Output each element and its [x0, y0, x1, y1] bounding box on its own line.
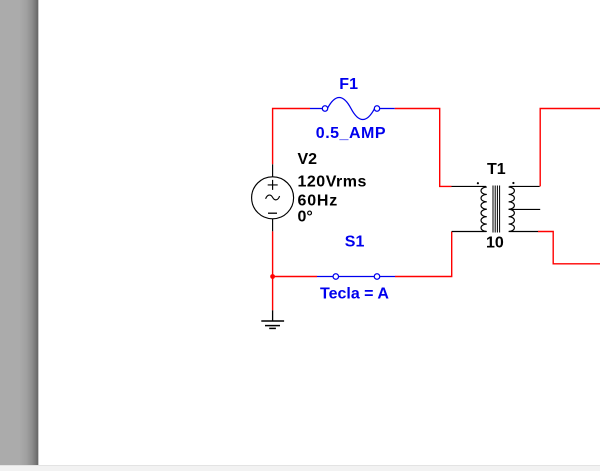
- primary phase dot: [477, 182, 479, 184]
- svg-text:120Vrms: 120Vrms: [298, 173, 367, 190]
- status bar separator: [0, 465, 600, 466]
- svg-text:0.5_AMP: 0.5_AMP: [316, 125, 386, 142]
- svg-text:0°: 0°: [298, 208, 313, 225]
- status bar strip: [0, 466, 600, 471]
- secondary winding: [509, 187, 515, 232]
- secondary top lead: [509, 185, 539, 187]
- junction dot: [270, 274, 275, 279]
- fuse F1: [310, 97, 395, 119]
- core lines: [493, 186, 500, 233]
- primary winding: [481, 187, 487, 232]
- svg-text:V2: V2: [298, 151, 318, 168]
- svg-text:F1: F1: [339, 76, 358, 93]
- switch S1: [317, 274, 395, 280]
- wire: V2 top to fuse (red): [273, 109, 310, 165]
- wire: transformer secondary bottom to bottom-right edge (red): [538, 232, 600, 264]
- ground: [261, 310, 284, 328]
- wire: fuse to transformer primary top (red): [395, 109, 452, 187]
- secondary bottom lead: [509, 231, 538, 233]
- wire: switch to junction (red): [273, 276, 317, 278]
- wire: transformer secondary top to top-right edge (red): [540, 109, 600, 187]
- primary bottom lead: [452, 231, 486, 233]
- primary top lead: [452, 185, 487, 187]
- svg-text:10: 10: [486, 235, 504, 252]
- secondary phase dot: [512, 182, 514, 184]
- wire: transformer primary bottom down to switch (red): [395, 232, 452, 277]
- secondary center tap: [509, 208, 541, 210]
- ac source V2: [252, 164, 294, 231]
- wire: V2 bottom to junction and ground (red): [272, 231, 274, 310]
- svg-text:S1: S1: [345, 234, 365, 251]
- svg-text:60Hz: 60Hz: [298, 192, 339, 209]
- transformer T1: [452, 186, 541, 233]
- svg-text:Tecla = A: Tecla = A: [320, 286, 389, 303]
- window left panel: [0, 0, 39, 465]
- svg-text:T1: T1: [487, 161, 506, 178]
